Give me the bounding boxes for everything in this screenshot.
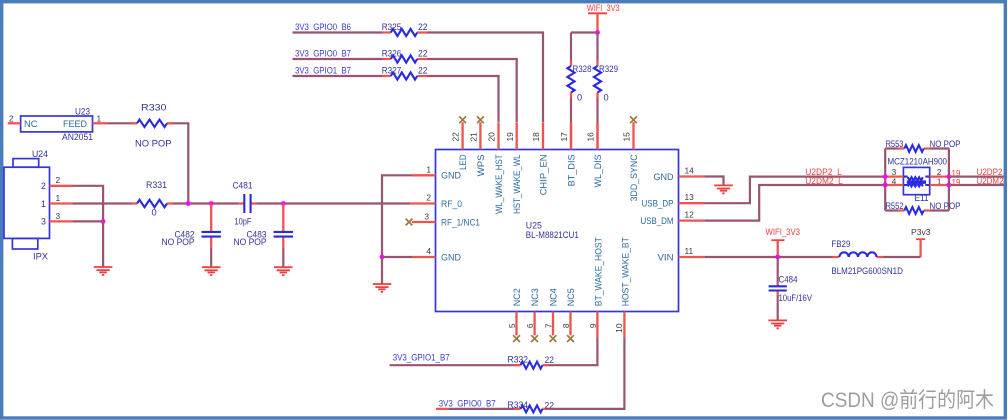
capacitor C483 NO POP (234, 204, 294, 249)
svg-text:BLM21PG600SN1D: BLM21PG600SN1D (831, 266, 903, 276)
power WIFI_3V3 (right) (766, 227, 801, 257)
U25 pin 5 NC2 (bottom) (515, 312, 517, 336)
junction VIN / WIFI_3V3 / C484 (775, 255, 780, 260)
svg-text:4: 4 (426, 246, 431, 256)
U25 pin 7 NC4 (bottom) (552, 312, 554, 336)
svg-text:R331: R331 (146, 180, 167, 190)
resistor R330 NO POP (132, 103, 173, 149)
svg-text:22: 22 (451, 132, 461, 142)
resistor R328 (567, 33, 591, 150)
svg-text:HOST_WAKE_BT: HOST_WAKE_BT (621, 237, 631, 306)
svg-text:22: 22 (418, 22, 428, 32)
svg-text:2: 2 (9, 114, 14, 124)
wire bottom row 2 to R334 (436, 408, 449, 410)
svg-text:NC2: NC2 (512, 288, 522, 306)
svg-text:2: 2 (426, 193, 431, 203)
common-mode choke E11 MCZ1210AH900 (888, 157, 948, 203)
svg-text:5: 5 (507, 323, 517, 328)
svg-text:3: 3 (892, 167, 897, 177)
ground (C482) (202, 267, 221, 275)
U25 pin 3 RF_1/NC1 (left) (412, 221, 436, 223)
svg-text:1: 1 (426, 164, 431, 174)
U24 pin 1 stub (50, 202, 74, 204)
svg-text:19: 19 (505, 132, 515, 142)
svg-text:0: 0 (577, 93, 582, 103)
svg-text:R325: R325 (382, 22, 402, 32)
wire R334 to pin 10 (549, 338, 624, 409)
wire row2 from 3V3_GPIO0_B7 to R326 (293, 58, 383, 60)
resistor R325 (382, 22, 428, 36)
svg-text:BT_WAKE_HOST: BT_WAKE_HOST (594, 237, 604, 306)
svg-text:CSDN @前行的阿木: CSDN @前行的阿木 (821, 389, 994, 412)
U25 pin 8 NC5 (bottom) (569, 312, 571, 336)
U24 pin 3 stub (50, 220, 74, 222)
junction R330 drop (186, 201, 191, 206)
resistor R326 (382, 49, 428, 63)
E11 pin 4 stub (885, 184, 903, 186)
svg-text:1: 1 (56, 193, 61, 203)
U25 pin 6 NC3 (bottom) (533, 312, 535, 336)
resistor R334 (508, 400, 555, 412)
svg-text:17: 17 (559, 132, 569, 142)
wire bottom row to R332 (390, 364, 515, 366)
wire USB_DP up to U2DP2_L (705, 177, 885, 204)
wire R328/R329 top connector (571, 31, 598, 33)
resistor R327 (382, 66, 428, 80)
svg-text:WPS: WPS (476, 154, 486, 176)
svg-text:10: 10 (614, 323, 624, 333)
resistor R552 NO POP (885, 201, 960, 214)
svg-text:3V3_GPIO0_B7: 3V3_GPIO0_B7 (295, 49, 351, 59)
svg-text:USB_DP: USB_DP (642, 199, 674, 209)
wire U2DP2 to border (949, 176, 1004, 178)
E11 pin 3 stub (885, 175, 903, 177)
svg-text:CHIP_EN: CHIP_EN (538, 154, 548, 195)
resistor R329 (594, 33, 618, 150)
svg-text:VIN: VIN (658, 252, 674, 262)
U23 pin 2 stub (8, 122, 21, 124)
svg-text:22: 22 (545, 355, 555, 365)
U25 pin 17 BT_DIS (top) (570, 122, 572, 149)
wire row3 to pin 20 (427, 76, 499, 122)
wire U24 pin3 (73, 220, 103, 222)
svg-text:WL_WAKE_HST: WL_WAKE_HST (494, 154, 504, 214)
U25 pin 1 GND (left) (412, 174, 436, 176)
wire R330 to RF junction (173, 123, 189, 203)
wire pin14 to ground (705, 177, 724, 186)
wire USB_DM up to U2DM2_L (705, 185, 885, 221)
wire down to ground (102, 221, 104, 266)
no-connect X pin 8 (567, 335, 574, 342)
wire FB29 to P3v3 (884, 256, 921, 258)
svg-text:15: 15 (622, 132, 632, 142)
svg-text:NO POP: NO POP (135, 139, 172, 149)
svg-text:U24: U24 (32, 149, 48, 159)
svg-text:P3v3: P3v3 (911, 227, 931, 237)
connector U24 (IPX) (4, 149, 50, 262)
svg-text:0: 0 (604, 93, 609, 103)
ground (C484) (768, 320, 787, 328)
ferrite bead FB29 BLM21PG600SN1D (831, 239, 903, 276)
resistor R331 (132, 180, 174, 218)
svg-text:USB_DM: USB_DM (641, 216, 674, 226)
svg-text:0: 0 (152, 208, 157, 218)
svg-text:R328: R328 (573, 64, 592, 74)
svg-text:E11: E11 (915, 193, 929, 203)
svg-text:R553: R553 (886, 139, 904, 149)
svg-text:BL-M8821CU1: BL-M8821CU1 (526, 230, 579, 240)
svg-text:1: 1 (41, 199, 46, 209)
U25 pin 19 HST_WAKE_WL (top) (516, 122, 518, 149)
svg-text:2: 2 (41, 181, 46, 191)
svg-text:U2DM2: U2DM2 (977, 176, 1004, 186)
junction at WIFI_3V3 stem (595, 30, 600, 35)
junction C483 tap (281, 201, 286, 206)
power P3v3 (911, 227, 931, 257)
wire pin4 to gnd (382, 256, 412, 258)
svg-text:RF_0: RF_0 (441, 199, 462, 209)
svg-text:R330: R330 (141, 103, 167, 113)
svg-text:3V3_GPIO1_B7: 3V3_GPIO1_B7 (393, 353, 450, 363)
svg-text:13: 13 (685, 192, 695, 202)
no-connect X pin 5 (513, 335, 520, 342)
IC U25 BL-M8821CU1 (436, 150, 679, 312)
svg-text:C484: C484 (779, 275, 798, 285)
resistor R553 NO POP (885, 139, 960, 152)
wire row3 from 3V3_GPIO1_B7 to R327 (293, 75, 383, 77)
wire C484 to ground (777, 295, 779, 320)
svg-text:22: 22 (418, 66, 428, 76)
svg-text:R332: R332 (508, 355, 529, 365)
svg-text:1: 1 (97, 114, 102, 124)
svg-text:NO POP: NO POP (162, 237, 195, 247)
U24 pin 2 stub (50, 185, 74, 187)
svg-text:R326: R326 (382, 49, 402, 59)
wire R332 to pin 9 (549, 338, 597, 365)
wire U23 to R330 (107, 122, 131, 124)
svg-text:8: 8 (561, 323, 571, 328)
U25 pin 12 USB_DM (right) (679, 219, 706, 221)
svg-text:3: 3 (56, 211, 61, 221)
U25 pin 20 WL_WAKE_HST (top) (497, 122, 499, 149)
no-connect X pin 21 (477, 116, 484, 123)
svg-text:R552: R552 (886, 201, 904, 211)
svg-text:9: 9 (588, 323, 598, 328)
svg-text:NO POP: NO POP (930, 139, 961, 149)
U25 pin 22 LED (top) (461, 122, 463, 149)
svg-text:RF_1/NC1: RF_1/NC1 (441, 217, 480, 227)
svg-text:U2DM2_L: U2DM2_L (805, 176, 843, 186)
svg-text:HST_WAKE_WL: HST_WAKE_WL (512, 154, 522, 214)
svg-text:NC4: NC4 (549, 288, 559, 306)
svg-text:19: 19 (952, 169, 961, 178)
junction C482 tap (209, 201, 214, 206)
E11 pin 1 stub (930, 184, 949, 186)
svg-text:3: 3 (41, 217, 46, 227)
svg-text:GND: GND (441, 171, 461, 181)
U25 pin 21 WPS (top) (479, 122, 481, 149)
no-connect X pin 3 (406, 219, 413, 226)
svg-text:2: 2 (937, 167, 942, 177)
wire C483 to ground (282, 248, 284, 267)
U25 pin 11 VIN (right) (679, 256, 706, 258)
svg-text:3V3_GPIO1_B7: 3V3_GPIO1_B7 (295, 66, 351, 76)
svg-text:11: 11 (685, 246, 694, 256)
svg-text:IPX: IPX (33, 252, 48, 262)
wire R553 right drop (948, 149, 950, 211)
svg-text:3DD_SYNC: 3DD_SYNC (629, 154, 639, 201)
U25 pin 15 3DD_SYNC (top) (632, 122, 634, 149)
svg-text:NC5: NC5 (566, 288, 576, 306)
E11 pin 2 stub (930, 175, 949, 177)
svg-text:AN2051: AN2051 (62, 132, 93, 142)
svg-text:NC3: NC3 (530, 288, 540, 306)
wire R331 to C481 (173, 202, 239, 204)
U25 pin 14 GND (right) (679, 175, 706, 177)
wire row2 to pin 19 (427, 59, 517, 122)
svg-text:19: 19 (952, 178, 961, 187)
svg-text:18: 18 (531, 132, 541, 142)
junction dots left of E11 (883, 174, 888, 179)
ground (C483) (274, 267, 293, 275)
wire pin1 to left gnd rail (382, 175, 412, 257)
svg-text:LED: LED (458, 154, 468, 170)
wire C482 to ground (210, 248, 212, 267)
svg-text:R334: R334 (508, 400, 529, 410)
no-connect X pin 15 (630, 116, 637, 123)
U25 pin 18 CHIP_EN (top) (542, 122, 544, 149)
svg-text:GND: GND (654, 172, 674, 182)
ground (U25 left) (373, 284, 392, 292)
U25 pin 4 GND (left) (412, 256, 436, 258)
no-connect X pin 22 (459, 116, 466, 123)
svg-text:22: 22 (418, 49, 428, 59)
wire row1 to pin 18 (427, 33, 543, 123)
svg-text:16: 16 (586, 132, 596, 142)
ground (pin 14) (714, 185, 733, 193)
svg-text:3: 3 (424, 211, 429, 221)
svg-text:WIFI_3V3: WIFI_3V3 (766, 227, 801, 237)
svg-text:6: 6 (525, 323, 535, 328)
junction U24 pin3 (101, 219, 106, 224)
no-connect X pin 6 (531, 335, 538, 342)
svg-text:NC: NC (24, 119, 38, 129)
wire VIN to FB29 (705, 256, 833, 258)
wire U24 pin2 down (73, 186, 103, 222)
svg-text:U23: U23 (75, 107, 90, 117)
wire C481 to RF_0 pin (257, 202, 411, 204)
svg-text:10uF/16V: 10uF/16V (779, 293, 813, 303)
U25 pin 2 RF_0 (left) (410, 202, 436, 204)
svg-text:21: 21 (469, 132, 479, 142)
svg-text:20: 20 (487, 132, 497, 142)
U25 pin 16 WL_DIS (top) (596, 122, 598, 149)
capacitor C484 (769, 257, 813, 303)
capacitor C481 (series) (233, 181, 257, 227)
resistor R332 (508, 355, 555, 369)
svg-text:MCZ1210AH900: MCZ1210AH900 (888, 157, 948, 167)
svg-text:FEED: FEED (63, 119, 87, 129)
svg-text:GND: GND (441, 252, 461, 262)
junction left gnd rail (380, 255, 385, 260)
svg-text:2: 2 (56, 175, 61, 185)
no-connect X pin 7 (550, 335, 557, 342)
svg-text:FB29: FB29 (831, 239, 850, 249)
connector U23 (AN2051) (21, 107, 93, 143)
ground (IPX) (94, 267, 113, 275)
wire U2DM2 to border (949, 184, 1004, 186)
svg-text:NO POP: NO POP (930, 201, 961, 211)
svg-text:14: 14 (685, 165, 695, 175)
svg-text:12: 12 (685, 210, 695, 220)
svg-text:3V3_GPIO0_B6: 3V3_GPIO0_B6 (295, 22, 351, 32)
U25 pin 13 USB_DP (right) (679, 202, 706, 204)
svg-text:R327: R327 (382, 66, 402, 76)
svg-text:R329: R329 (599, 64, 618, 74)
wire R553 left drop (884, 149, 886, 211)
U25 pin 9 BT_WAKE_HOST (bottom) (596, 312, 598, 339)
U23 pin 1 stub (93, 122, 108, 124)
svg-text:7: 7 (544, 323, 554, 328)
wire U24 pin1 to R331 (73, 202, 132, 204)
svg-text:C481: C481 (233, 181, 253, 191)
svg-text:NO POP: NO POP (234, 237, 267, 247)
power WIFI_3V3 (top) (587, 3, 620, 33)
wire rail to ground (381, 257, 383, 284)
wire row1 from 3V3_GPIO0_B6 to R325 (293, 31, 383, 33)
svg-text:3V3_GPIO0_B7: 3V3_GPIO0_B7 (439, 399, 496, 409)
junction dots right of E11 (947, 174, 952, 179)
U25 pin 10 HOST_WAKE_BT (bottom) (623, 312, 625, 339)
svg-text:10pF: 10pF (235, 217, 252, 227)
svg-text:WIFI_3V3: WIFI_3V3 (587, 3, 620, 13)
capacitor C482 NO POP (162, 204, 221, 249)
svg-text:BT_DIS: BT_DIS (566, 154, 576, 186)
svg-text:WL_DIS: WL_DIS (593, 154, 603, 187)
